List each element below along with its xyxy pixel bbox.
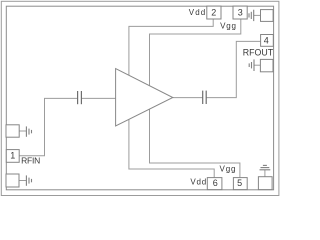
pin 5 box — [233, 178, 247, 190]
pin 6 box — [207, 178, 222, 190]
wire pad to ground lower-left — [19, 180, 26, 182]
pin 4 box — [261, 35, 274, 47]
wire Vdd net: pin 2 to pin 6 — [129, 19, 214, 178]
svg-text:Vdd: Vdd — [190, 178, 206, 187]
svg-text:RFIN: RFIN — [21, 156, 40, 166]
pad lower-left — [6, 174, 19, 187]
pin 2 box — [207, 6, 221, 19]
capacitor C1 (input coupling) — [78, 91, 82, 104]
wire C2 to pin 4 — [206, 41, 260, 97]
wire C1 to amplifier input — [81, 97, 115, 99]
package outline (inner border) — [6, 6, 273, 190]
pin 1 box — [6, 150, 19, 163]
wire amplifier output to C2 — [173, 97, 203, 99]
wire pad to ground upper-left — [19, 130, 26, 132]
wire Vgg net: pin 3 to pin 5 — [150, 19, 241, 178]
svg-text:Vgg: Vgg — [220, 21, 236, 30]
ground at pin 3 — [249, 10, 254, 21]
wire ground to pad at RFOUT — [254, 64, 260, 66]
wire RF input: pin 1 to C1 — [19, 98, 77, 155]
ground bottom-right pad — [260, 165, 271, 169]
ground at RFOUT pad — [249, 59, 254, 71]
wire ground to pad at pin 3 — [254, 14, 261, 16]
ground upper-left pad — [26, 126, 31, 136]
svg-text:2: 2 — [211, 8, 216, 18]
svg-text:1: 1 — [10, 150, 15, 160]
wire pad to ground bottom-right — [264, 170, 266, 177]
pin 3 box — [233, 6, 247, 19]
pad at RFOUT — [260, 59, 273, 71]
op-amp U1 (amplifier triangle) — [116, 69, 173, 126]
svg-text:Vgg: Vgg — [220, 165, 236, 174]
svg-text:RFOUT: RFOUT — [243, 47, 274, 57]
pad at pin 3 — [261, 10, 274, 22]
outer frame border — [1, 1, 279, 195]
svg-text:5: 5 — [237, 178, 242, 188]
pad upper-left — [6, 125, 19, 137]
ground lower-left pad — [26, 175, 31, 185]
svg-text:4: 4 — [264, 36, 269, 46]
svg-text:6: 6 — [213, 178, 218, 188]
svg-text:Vdd: Vdd — [189, 8, 205, 17]
pad bottom-right — [258, 177, 272, 190]
capacitor C2 (output coupling) — [203, 91, 207, 104]
svg-text:3: 3 — [238, 8, 243, 18]
